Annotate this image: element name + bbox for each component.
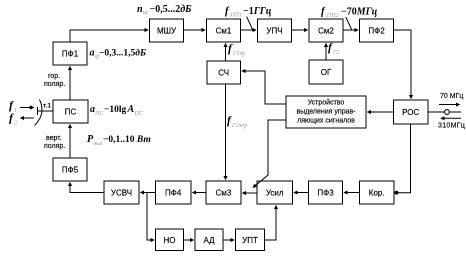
block ОГ [309, 60, 343, 84]
svg-text:A: A [127, 104, 135, 115]
svg-text:ПФ3: ПФ3 [317, 189, 334, 198]
block РОС [394, 100, 429, 124]
svg-text:ПП2: ПП2 [326, 13, 339, 19]
wire junction to НО [147, 193, 154, 241]
svg-text:ПФ4: ПФ4 [165, 189, 182, 198]
wire РОС to terminal [428, 111, 445, 113]
arrow 70 МГц out [439, 104, 460, 106]
svg-text:ПФ5: ПФ5 [62, 166, 79, 175]
svg-text:−0,5...2дБ: −0,5...2дБ [150, 4, 193, 15]
svg-text:2: 2 [14, 121, 17, 127]
wire Кор. to ПФ3 [344, 192, 360, 194]
label f_ПП2 = 70МГц [321, 7, 378, 20]
arrow f2 output [21, 117, 35, 119]
block СМ1 [207, 19, 241, 42]
wire УСВЧ to ПФ5 [70, 183, 104, 193]
svg-text:См2: См2 [318, 27, 334, 36]
block ПФ2 [360, 19, 394, 42]
svg-text:ПФ2: ПФ2 [368, 27, 385, 36]
wire Усил to СМ3 [243, 192, 258, 194]
svg-text:См3: См3 [216, 189, 232, 198]
antenna feed symbol т.1 [35, 100, 44, 126]
svg-text:ПП1: ПП1 [230, 13, 243, 19]
label гор. поляр. [44, 73, 65, 88]
wire terminal out [450, 111, 462, 113]
leader line f_ПП2 [346, 17, 352, 30]
wire antenna to ПС [42, 110, 53, 112]
svg-text:ОГ: ОГ [321, 68, 332, 77]
wire ПС to ПФ1 [69, 67, 71, 101]
wire Устройство to Усил gain control [253, 120, 286, 188]
svg-text:−10lg: −10lg [104, 105, 127, 115]
label P_вых = 0,1...10Вт [87, 134, 151, 147]
block УПЧ [258, 19, 292, 42]
label a_ф = 0,3...1,5дБ [90, 48, 147, 61]
svg-text:НО: НО [164, 236, 176, 245]
svg-text:вых: вых [94, 141, 104, 147]
wire УПЧ to СМ2 [292, 29, 308, 31]
block УПТ [236, 229, 265, 251]
wire СЧ to СМ1 [225, 44, 227, 62]
label f_Г1пр [228, 43, 245, 57]
terminal circle [445, 110, 450, 115]
block МШУ [150, 19, 184, 42]
arrow f1 input [20, 106, 34, 109]
svg-text:−0,1..10 Вт: −0,1..10 Вт [103, 135, 151, 145]
block ПФ3 [309, 181, 343, 204]
svg-text:1: 1 [14, 108, 17, 114]
wire ПФ4 to УСВЧ [141, 192, 156, 194]
wire УПТ to Усил [265, 206, 277, 241]
wire ОГ to СМ2 [325, 44, 327, 61]
svg-text:ПС: ПС [134, 111, 144, 117]
block СМ3 [206, 181, 241, 204]
wire РОС to Устройство [368, 111, 394, 113]
wire ПФ3 to Усил [294, 192, 309, 194]
svg-text:УПТ: УПТ [242, 236, 258, 245]
svg-text:a: a [90, 48, 95, 59]
svg-text:Г1пер: Г1пер [231, 123, 247, 129]
svg-text:ляющих сигналов: ляющих сигналов [297, 118, 355, 125]
label n_ш = 0,5...2дБ [137, 4, 192, 16]
svg-text:АД: АД [203, 236, 215, 245]
block АД [195, 229, 223, 251]
wire ПФ5 to ПС [69, 125, 71, 159]
svg-text:−1ГГц: −1ГГц [243, 6, 272, 17]
svg-text:Г1пр: Г1пр [232, 51, 245, 57]
wire ПФ2 to РОС [394, 30, 412, 99]
svg-text:РОС: РОС [402, 108, 419, 117]
svg-text:УПЧ: УПЧ [266, 27, 282, 36]
svg-text:−0,3...1,5дБ: −0,3...1,5дБ [99, 48, 146, 59]
svg-text:ПС: ПС [94, 111, 104, 117]
block ПФ4 [156, 181, 192, 204]
svg-text:ПФ1: ПФ1 [62, 50, 79, 59]
svg-text:выделения управ-: выделения управ- [296, 109, 356, 116]
svg-text:Устройство: Устройство [308, 99, 345, 107]
svg-text:СЧ: СЧ [218, 69, 229, 78]
wire Устройство to СЧ [242, 71, 286, 104]
junction dot at Кор. input [395, 191, 399, 195]
arrow 310 МГц in [441, 117, 461, 119]
svg-text:−70МГц: −70МГц [341, 7, 378, 18]
wire ПФ1 to МШУ [70, 30, 148, 42]
block ПФ5 [53, 158, 87, 181]
block СЧ [207, 61, 241, 84]
label f_Г1пер [227, 115, 247, 129]
label f2 [9, 111, 17, 127]
svg-text:поляр.: поляр. [44, 81, 65, 88]
svg-text:ш: ш [143, 10, 148, 16]
wire МШУ to СМ1 [184, 29, 206, 31]
leader line f_ПП1 [247, 17, 253, 30]
label f_ПП1 = 1ГГц [225, 6, 272, 19]
svg-text:70 МГц: 70 МГц [440, 93, 463, 100]
svg-text:Усил: Усил [266, 189, 284, 198]
wire СМ1 to УПЧ [241, 29, 257, 31]
block НО [156, 229, 184, 251]
svg-text:т.1: т.1 [43, 103, 51, 110]
svg-text:См1: См1 [216, 27, 232, 36]
wire СЧ to СМ3 [225, 84, 227, 180]
block Усил [257, 181, 293, 204]
svg-text:гор.: гор. [48, 73, 60, 80]
svg-text:поляр.: поляр. [44, 143, 65, 150]
block Устройство выделения управляющих сигналов [286, 96, 366, 128]
wire РОС to Кор. [398, 124, 411, 193]
svg-text:310МГц: 310МГц [438, 123, 465, 130]
block Кор. [360, 181, 395, 204]
wire АД to УПТ [223, 239, 234, 241]
svg-text:Г2: Г2 [332, 50, 339, 56]
wire СМ2 to ПФ2 [343, 29, 358, 31]
block УСВЧ [104, 181, 139, 204]
label f_Г2 [328, 42, 339, 56]
wire СМ3 to ПФ4 [193, 192, 207, 194]
wire НО to АД [184, 239, 194, 241]
svg-text:МШУ: МШУ [157, 27, 177, 36]
svg-text:УСВЧ: УСВЧ [111, 189, 132, 198]
label верт. поляр. [44, 135, 65, 150]
block ПФ1 [53, 42, 87, 65]
svg-text:ПС: ПС [65, 108, 77, 117]
label a_ПС = 10lgA_ПС [90, 104, 144, 117]
svg-text:верт.: верт. [46, 135, 62, 142]
svg-text:Кор.: Кор. [369, 189, 385, 198]
label f1 [9, 98, 17, 114]
block СМ2 [309, 19, 343, 42]
block ПС [53, 100, 88, 123]
